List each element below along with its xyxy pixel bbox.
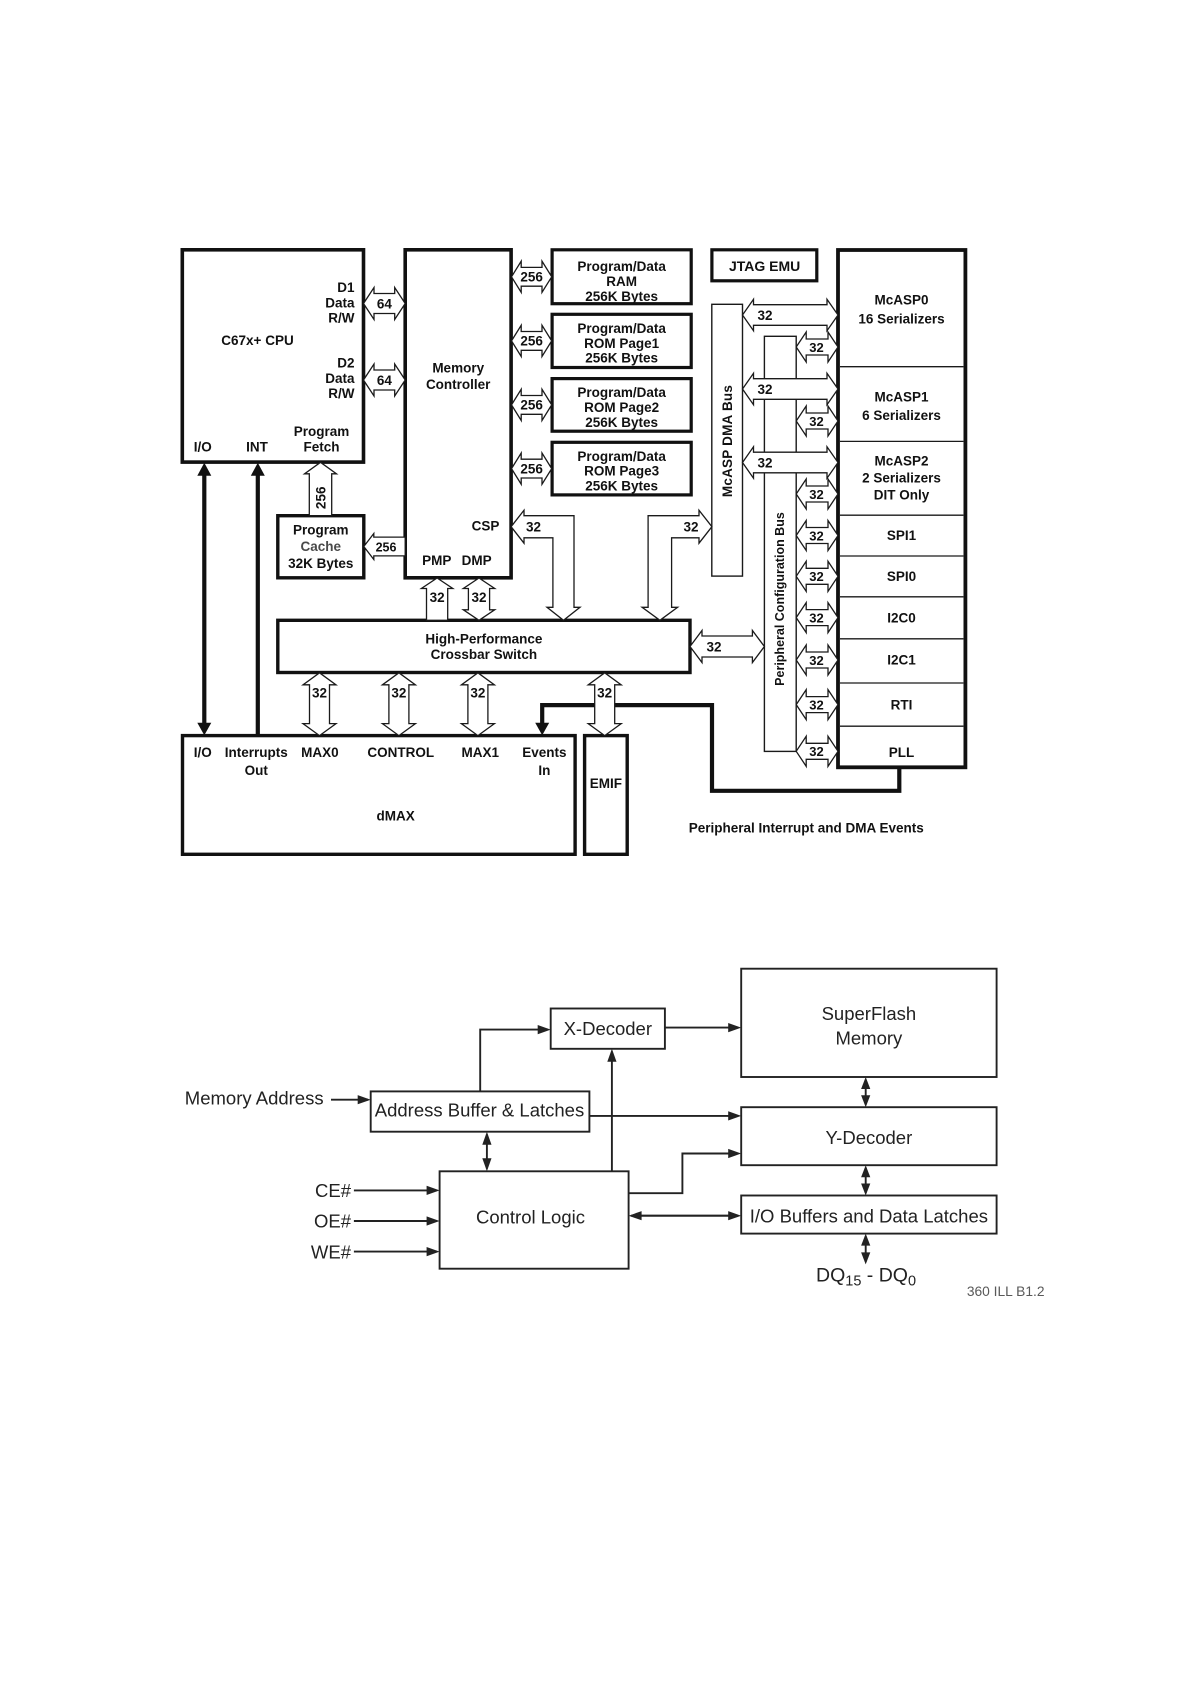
svg-text:Data: Data [325, 371, 355, 386]
svg-text:ROM Page1: ROM Page1 [584, 336, 660, 351]
svg-text:I/O Buffers and Data Latches: I/O Buffers and Data Latches [750, 1205, 988, 1226]
svg-text:32: 32 [683, 520, 698, 535]
svg-text:I/O: I/O [194, 439, 212, 454]
svg-text:Interrupts: Interrupts [225, 745, 288, 760]
svg-text:JTAG EMU: JTAG EMU [729, 258, 800, 274]
svg-text:256K Bytes: 256K Bytes [585, 415, 658, 430]
svg-text:Program: Program [294, 424, 350, 439]
svg-text:DIT Only: DIT Only [874, 488, 930, 503]
svg-text:2 Serializers: 2 Serializers [862, 471, 941, 486]
svg-text:SPI0: SPI0 [887, 569, 916, 584]
svg-text:32: 32 [809, 528, 823, 543]
svg-text:ROM Page3: ROM Page3 [584, 464, 660, 479]
svg-text:MAX1: MAX1 [462, 745, 500, 760]
svg-text:Fetch: Fetch [303, 439, 339, 454]
svg-text:32: 32 [809, 744, 823, 759]
svg-text:DQ15 - DQ0: DQ15 - DQ0 [816, 1265, 916, 1290]
svg-text:D1: D1 [337, 280, 355, 295]
svg-text:Cache: Cache [301, 539, 342, 554]
svg-text:CONTROL: CONTROL [367, 745, 434, 760]
svg-text:ROM Page2: ROM Page2 [584, 400, 659, 415]
svg-text:32: 32 [809, 697, 823, 712]
svg-text:I/O: I/O [194, 745, 212, 760]
svg-text:CSP: CSP [472, 518, 500, 533]
svg-text:Out: Out [245, 763, 269, 778]
svg-text:256: 256 [520, 461, 543, 476]
svg-text:X-Decoder: X-Decoder [564, 1018, 652, 1039]
svg-text:McASP2: McASP2 [874, 453, 928, 468]
svg-text:D2: D2 [337, 356, 354, 371]
svg-text:32: 32 [471, 590, 486, 605]
svg-text:6 Serializers: 6 Serializers [862, 408, 941, 423]
svg-text:McASP0: McASP0 [874, 293, 928, 308]
svg-text:Program/Data: Program/Data [577, 321, 666, 336]
svg-text:360 ILL B1.2: 360 ILL B1.2 [967, 1284, 1045, 1299]
svg-text:SPI1: SPI1 [887, 528, 917, 543]
svg-text:PLL: PLL [889, 745, 915, 760]
svg-text:Data: Data [325, 295, 355, 310]
svg-text:I2C0: I2C0 [887, 610, 916, 625]
svg-text:256K Bytes: 256K Bytes [585, 351, 658, 366]
svg-text:64: 64 [377, 296, 393, 311]
svg-text:32: 32 [757, 455, 772, 470]
svg-text:R/W: R/W [328, 311, 355, 326]
svg-text:32: 32 [526, 520, 541, 535]
svg-text:32: 32 [470, 685, 485, 700]
svg-text:16 Serializers: 16 Serializers [858, 312, 944, 327]
svg-text:32: 32 [757, 382, 772, 397]
svg-text:64: 64 [377, 373, 393, 388]
svg-text:Program: Program [293, 523, 349, 538]
svg-text:DMP: DMP [462, 553, 492, 568]
svg-text:256: 256 [520, 398, 543, 413]
svg-text:32: 32 [809, 414, 823, 429]
svg-text:McASP DMA Bus: McASP DMA Bus [720, 385, 735, 497]
svg-text:C67x+ CPU: C67x+ CPU [221, 333, 293, 348]
svg-text:Address Buffer & Latches: Address Buffer & Latches [375, 1100, 584, 1121]
svg-text:256: 256 [520, 270, 543, 285]
svg-text:In: In [538, 763, 550, 778]
svg-text:Program/Data: Program/Data [577, 259, 666, 274]
svg-text:INT: INT [246, 439, 269, 454]
svg-text:32: 32 [809, 487, 823, 502]
svg-text:RAM: RAM [606, 274, 637, 289]
svg-text:32: 32 [809, 340, 823, 355]
svg-text:Peripheral Interrupt and DMA E: Peripheral Interrupt and DMA Events [689, 821, 924, 836]
svg-text:CE#: CE# [315, 1180, 352, 1201]
svg-text:SuperFlash: SuperFlash [822, 1003, 917, 1024]
svg-text:256K Bytes: 256K Bytes [585, 478, 658, 493]
svg-text:PMP: PMP [422, 553, 451, 568]
svg-text:Memory: Memory [835, 1027, 903, 1048]
svg-text:OE#: OE# [314, 1211, 352, 1232]
svg-text:EMIF: EMIF [590, 776, 622, 791]
svg-text:256: 256 [520, 334, 543, 349]
svg-text:Control Logic: Control Logic [476, 1206, 585, 1227]
svg-text:32: 32 [809, 610, 823, 625]
svg-text:High-Performance: High-Performance [425, 632, 543, 647]
svg-text:32: 32 [312, 685, 327, 700]
svg-text:I2C1: I2C1 [887, 653, 916, 668]
svg-text:32: 32 [809, 569, 823, 584]
svg-text:32: 32 [391, 685, 406, 700]
svg-text:Crossbar Switch: Crossbar Switch [431, 647, 538, 662]
svg-text:256: 256 [313, 486, 328, 509]
svg-text:256K Bytes: 256K Bytes [585, 289, 658, 304]
svg-text:32: 32 [757, 308, 772, 323]
svg-text:Program/Data: Program/Data [577, 449, 666, 464]
svg-text:McASP1: McASP1 [874, 390, 929, 405]
svg-text:Peripheral Configuration Bus: Peripheral Configuration Bus [773, 512, 787, 686]
svg-text:32: 32 [809, 653, 823, 668]
svg-text:32: 32 [706, 639, 721, 654]
svg-text:Y-Decoder: Y-Decoder [826, 1127, 913, 1148]
svg-text:Events: Events [522, 745, 566, 760]
svg-text:32: 32 [597, 685, 612, 700]
svg-text:Memory: Memory [432, 360, 484, 375]
svg-text:32: 32 [430, 590, 445, 605]
svg-text:32K Bytes: 32K Bytes [288, 556, 353, 571]
svg-text:dMAX: dMAX [376, 808, 414, 823]
svg-text:Program/Data: Program/Data [577, 385, 666, 400]
svg-text:256: 256 [376, 540, 397, 554]
svg-text:R/W: R/W [328, 386, 355, 401]
svg-text:MAX0: MAX0 [301, 745, 339, 760]
svg-text:Memory Address: Memory Address [185, 1087, 324, 1108]
svg-text:Controller: Controller [426, 377, 491, 392]
svg-text:WE#: WE# [311, 1241, 352, 1262]
svg-text:RTI: RTI [891, 697, 913, 712]
